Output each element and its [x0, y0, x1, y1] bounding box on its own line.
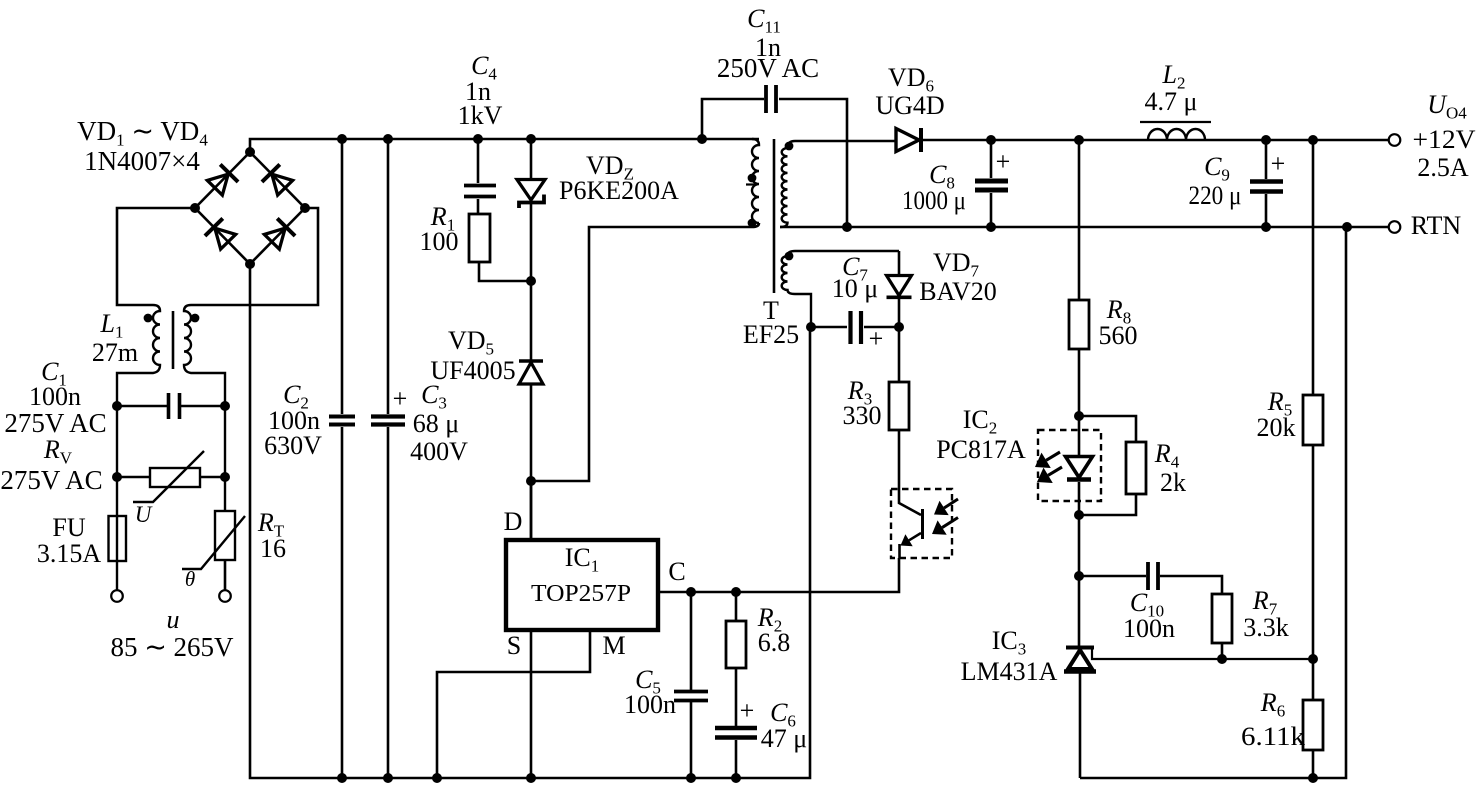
node LED bottom [1074, 510, 1084, 520]
opto IC2 LED box [1038, 430, 1101, 501]
pin S wire [530, 630, 533, 778]
node C1 right [220, 401, 230, 411]
node C4 top [473, 134, 483, 144]
svg-text:+: + [996, 147, 1011, 176]
node R2 top [731, 587, 741, 597]
svg-text:P6KE200A: P6KE200A [559, 176, 679, 205]
phase dot L1 right [191, 314, 200, 323]
svg-text:100n: 100n [29, 382, 81, 411]
shunt reg IC3 LM431A [1064, 648, 1313, 779]
opto LED diode [1066, 416, 1093, 515]
opto emitter wire [898, 544, 901, 558]
svg-text:2.5A: 2.5A [1417, 153, 1469, 182]
svg-text:630V: 630V [264, 431, 322, 460]
node C5 bottom [686, 773, 696, 783]
node R6 bottom [1308, 773, 1318, 783]
node C7 right [894, 322, 904, 332]
svg-text:+12V: +12V [1413, 125, 1476, 154]
svg-text:275V AC: 275V AC [4, 408, 106, 438]
wire RTN rail [780, 226, 1389, 229]
svg-text:RTN: RTN [1411, 211, 1462, 240]
winding T primary [752, 139, 759, 223]
node RV right [220, 472, 230, 482]
wire top primary bus rail [250, 139, 759, 152]
svg-text:VD1 ∼ VD4: VD1 ∼ VD4 [77, 116, 208, 150]
diode VD3 bridge bottom-left [205, 218, 237, 250]
wire bridge right node to L1 right winding [191, 208, 318, 305]
resistor R5 20k [1303, 140, 1323, 659]
resistor R8 560 [1069, 140, 1089, 416]
svg-text:100n: 100n [624, 690, 676, 719]
node C9 top [1261, 135, 1271, 145]
node C11 tap [697, 134, 707, 144]
svg-text:1000 μ: 1000 μ [902, 186, 966, 215]
resistor R2 6.8 [726, 592, 746, 726]
node L2 left [1074, 135, 1084, 145]
node bridge right [300, 203, 310, 213]
node LED top [1074, 411, 1084, 421]
pin D wire [530, 481, 533, 540]
node bridge bottom [245, 259, 255, 269]
diode VD2 bridge top-right [262, 164, 294, 196]
svg-text:FU: FU [52, 513, 85, 542]
svg-text:20k: 20k [1257, 413, 1296, 442]
opto transistor emitter [901, 533, 922, 546]
svg-text:TOP257P: TOP257P [531, 581, 631, 607]
tap stub T primary [746, 183, 757, 185]
wire LED to C10 node [1078, 515, 1081, 576]
terminal RTN [1389, 221, 1401, 233]
svg-text:250V AC: 250V AC [717, 53, 819, 83]
wire bridge diamond [195, 152, 305, 264]
svg-text:1N4007×4: 1N4007×4 [84, 146, 200, 176]
svg-text:330: 330 [843, 401, 882, 430]
diode VD7 BAV20 [887, 251, 912, 327]
node VDZ top [526, 134, 536, 144]
resistor R3 330 [889, 327, 909, 489]
winding T auxiliary [782, 251, 899, 327]
node RTN right rail [1342, 222, 1352, 232]
svg-text:10 μ: 10 μ [832, 274, 878, 303]
svg-text:+: + [869, 324, 884, 353]
diode VD6 UG4D [896, 128, 921, 152]
terminal UO4 +12V [1389, 134, 1401, 146]
thermistor RT [182, 511, 245, 591]
svg-text:100: 100 [420, 227, 459, 256]
node R7 bottom [1217, 654, 1227, 664]
svg-text:LM431A: LM431A [961, 657, 1058, 686]
node C11 bottom RTN [842, 222, 852, 232]
svg-text:EF25: EF25 [743, 320, 799, 349]
core of transformer T [773, 139, 776, 293]
capacitor C1 [117, 393, 225, 419]
node R1-VDZ junction [526, 276, 536, 286]
opto LED light arrow 1 [1035, 452, 1060, 468]
terminal input L [111, 590, 123, 602]
svg-text:UG4D: UG4D [875, 91, 944, 120]
terminal input N [219, 590, 231, 602]
inductor L1 left winding [117, 305, 160, 591]
phase dot T aux [785, 252, 794, 261]
svg-text:U: U [135, 502, 153, 527]
wire C3 rail [387, 139, 390, 778]
node C1 left [112, 401, 122, 411]
svg-text:275V AC: 275V AC [0, 465, 102, 495]
node C2 top [337, 134, 347, 144]
resistor R1 [469, 214, 490, 262]
wire VDZ to VD5 [530, 204, 533, 360]
capacitor C6 47u [715, 728, 757, 778]
opto IC2 phototransistor box [891, 489, 952, 558]
node C6 bottom [731, 773, 741, 783]
wire LED node to IC3 [1078, 576, 1081, 646]
opto transistor collector [899, 489, 921, 515]
phase dot T primary mid [748, 174, 757, 183]
svg-text:6.11k: 6.11k [1241, 722, 1305, 751]
node C9 bottom [1261, 222, 1271, 232]
wire C2 rail [341, 139, 344, 778]
node D drain [526, 476, 536, 486]
wire bridge bottom to primary ground rail [250, 264, 810, 778]
wire VD6 to output + [921, 139, 1389, 142]
wire primary bottom to drain [531, 223, 759, 481]
node C8 bottom [986, 222, 996, 232]
zener VDZ P6KE200A [517, 180, 545, 209]
svg-text:68 μ: 68 μ [413, 409, 459, 438]
capacitor C2 [329, 417, 355, 425]
node bridge left [190, 203, 200, 213]
wire R1 bottom to VDZ node [479, 262, 531, 281]
node S ground [526, 773, 536, 783]
phase dot L1 left [144, 314, 153, 323]
svg-text:220 μ: 220 μ [1189, 181, 1242, 210]
svg-text:θ: θ [185, 567, 195, 591]
svg-text:u: u [167, 605, 180, 634]
capacitor C11 [702, 85, 847, 227]
inductor L2 4.7u [1148, 129, 1205, 140]
capacitor C7 10u [811, 311, 899, 344]
phase dot T secondary [785, 142, 794, 151]
opto transistor base bar [921, 509, 924, 539]
fuse FU 3.15A [109, 516, 127, 561]
capacitor C10 100n [1079, 562, 1222, 594]
svg-text:2k: 2k [1160, 468, 1186, 497]
svg-text:27m: 27m [92, 338, 138, 367]
svg-text:+: + [1271, 149, 1286, 178]
svg-text:3.3k: 3.3k [1243, 613, 1289, 642]
pin C wire [658, 558, 899, 592]
svg-text:85 ∼ 265V: 85 ∼ 265V [110, 632, 234, 662]
resistor R6 6.11k [1303, 659, 1323, 778]
node C8 top [986, 135, 996, 145]
phase dot T primary bottom [748, 219, 757, 228]
diode VD5 UF4005 [519, 361, 543, 384]
capacitor C5 100n [674, 592, 708, 778]
op-amp U1 IC1 TOP257P box [506, 540, 658, 630]
capacitor C4 [464, 139, 496, 214]
opto LED light arrow 2 [1037, 467, 1062, 483]
underline L2 value [1140, 121, 1211, 123]
svg-text:M: M [602, 631, 625, 660]
svg-text:C: C [668, 557, 685, 586]
svg-text:400V: 400V [410, 437, 468, 466]
node C7 left [806, 322, 816, 332]
node C3 top [383, 134, 393, 144]
svg-text:560: 560 [1099, 321, 1138, 350]
svg-text:S: S [507, 631, 521, 660]
node C10 left [1074, 571, 1084, 581]
inductor L1 right winding [184, 305, 225, 511]
svg-text:4.7 μ: 4.7 μ [1145, 87, 1198, 116]
svg-text:1kV: 1kV [458, 101, 503, 130]
capacitor C8 1000u [975, 140, 1008, 227]
node C2 bottom [337, 773, 347, 783]
node R5 bottom [1308, 654, 1318, 664]
svg-text:47 μ: 47 μ [761, 724, 807, 753]
svg-text:UF4005: UF4005 [430, 356, 515, 385]
diode VD4 bridge bottom-right [263, 218, 295, 250]
wire VDZ rail upper [530, 139, 533, 180]
node RV left [112, 472, 122, 482]
node C3 bottom [383, 773, 393, 783]
svg-text:6.8: 6.8 [758, 628, 791, 657]
pin M wire [437, 630, 590, 778]
opto light arrow 2 [932, 518, 958, 535]
diode VD1 bridge top-left [206, 164, 238, 196]
wire secondary ground rail [1080, 227, 1346, 778]
resistor R4 2k [1079, 416, 1136, 515]
opto light arrow 1 [934, 499, 958, 515]
node M ground [432, 773, 442, 783]
svg-text:16: 16 [260, 534, 286, 563]
wire bridge left node to L1 left winding [117, 208, 195, 305]
wire VD5 to D node [530, 384, 533, 540]
svg-text:+: + [740, 696, 755, 725]
capacitor C3 [371, 417, 405, 425]
svg-text:PC817A: PC817A [936, 435, 1026, 464]
node bridge top [245, 147, 255, 157]
node C5 top [686, 587, 696, 597]
svg-text:+: + [393, 384, 408, 413]
svg-text:BAV20: BAV20 [919, 277, 997, 306]
svg-text:3.15A: 3.15A [37, 539, 102, 568]
core of L1 [172, 311, 175, 369]
capacitor C9 220u [1250, 140, 1283, 227]
svg-text:D: D [504, 507, 523, 536]
winding T secondary [780, 141, 897, 227]
resistor R7 3.3k [1212, 594, 1232, 659]
varistor RV [117, 451, 225, 502]
svg-text:100n: 100n [1123, 614, 1175, 643]
node R5 top [1308, 135, 1318, 145]
